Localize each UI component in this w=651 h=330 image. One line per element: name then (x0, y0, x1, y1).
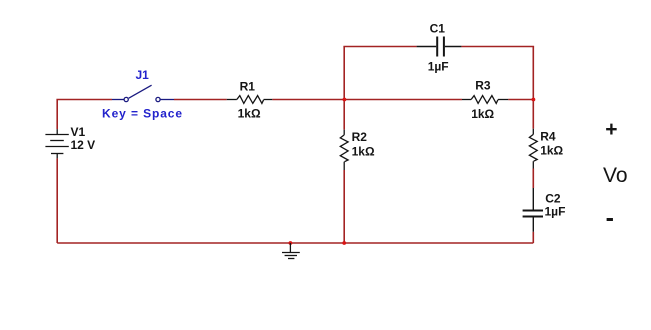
svg-text:R2: R2 (352, 130, 368, 144)
node B junction dot (532, 98, 536, 102)
wire node A down to R2 (343, 100, 345, 130)
wire R2 to bottom rail (343, 170, 345, 243)
svg-text:1kΩ: 1kΩ (352, 144, 375, 158)
svg-text:R4: R4 (540, 129, 556, 143)
battery V1 symbol (45, 129, 68, 158)
wire C1 top left horizontal (343, 46, 416, 48)
svg-text:1kΩ: 1kΩ (540, 144, 563, 158)
svg-text:12 V: 12 V (71, 138, 96, 152)
node A junction dot (343, 98, 347, 102)
wire battery bottom vertical (56, 158, 58, 243)
wire C1 feedback loop left vertical (343, 47, 345, 100)
svg-text:-: - (606, 204, 614, 232)
wire R3 to node B (508, 99, 533, 101)
svg-text:C2: C2 (545, 191, 561, 205)
svg-text:C1: C1 (430, 21, 446, 35)
capacitor C2 (523, 188, 543, 232)
capacitor C1 (417, 37, 462, 57)
wire C2 to bottom rail (532, 232, 534, 243)
resistor R2 (340, 130, 348, 170)
ground junction dot (289, 241, 293, 245)
wire node A to R3 (344, 99, 462, 101)
node R2-bottom junction dot (342, 241, 346, 245)
svg-text:Key = Space: Key = Space (102, 106, 183, 120)
wire C1 top right horizontal (461, 46, 534, 48)
resistor R4 (529, 129, 537, 169)
svg-text:Vo: Vo (603, 164, 628, 187)
svg-text:1kΩ: 1kΩ (238, 107, 261, 121)
ground (282, 243, 300, 259)
svg-text:J1: J1 (136, 68, 150, 82)
wire C1 feedback loop right vertical (532, 47, 534, 100)
svg-text:1kΩ: 1kΩ (471, 107, 494, 121)
wire battery top to switch (57, 100, 112, 130)
resistor R3 (462, 96, 508, 104)
svg-text:R3: R3 (475, 78, 491, 92)
svg-text:+: + (605, 118, 617, 141)
svg-text:1µF: 1µF (428, 60, 449, 74)
wire R1 to node A (272, 99, 344, 101)
wire bottom ground rail (57, 242, 533, 244)
svg-text:1µF: 1µF (545, 204, 566, 218)
wire R4 to C2 (532, 169, 534, 189)
svg-text:R1: R1 (240, 79, 256, 93)
wire node B down to R4 (532, 100, 534, 129)
wire switch to R1 (174, 99, 227, 101)
switch J1 (112, 85, 174, 101)
resistor R1 (227, 96, 273, 104)
svg-text:V1: V1 (71, 125, 86, 139)
